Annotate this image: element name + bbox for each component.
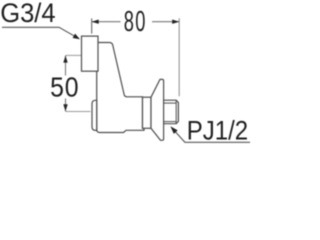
- dimension 50 extension line (top): [66, 54, 82, 56]
- svg-text:PJ1/2: PJ1/2: [187, 116, 248, 146]
- svg-text:50: 50: [50, 71, 79, 103]
- dimension 80 arrowhead left: [92, 20, 99, 24]
- leader arrowhead PJ1/2: [170, 126, 177, 134]
- dimension 50 line bottom segment: [65, 99, 67, 112]
- dimension 80 arrowhead right: [172, 20, 179, 24]
- pipe chamfer line vertical: [175, 100, 177, 124]
- leader line to PJ1/2 pipe: [175, 131, 250, 142]
- dimension 80 extension line (right): [178, 18, 180, 96]
- neck between body and flange: [143, 97, 152, 128]
- dimension 50 arrowhead down: [63, 104, 67, 111]
- dimension 50 line top segment: [65, 56, 67, 76]
- fitting body outline: [97, 43, 144, 133]
- pipe thread line bottom: [164, 121, 177, 123]
- svg-text:G3/4: G3/4: [0, 0, 55, 28]
- body left cap: [92, 100, 97, 130]
- flange cone with face: [151, 79, 164, 140]
- leader line to G3/4 thread: [2, 27, 76, 36]
- dimension 80 extension tick (left): [91, 18, 93, 33]
- dimension 50 extension line (bottom): [66, 111, 91, 113]
- G3/4 threaded boss: [82, 36, 99, 71]
- dimension 50 arrowhead up: [63, 56, 67, 63]
- leader arrowhead G3/4: [73, 34, 80, 40]
- dimension 80 line right segment: [152, 21, 179, 23]
- dimension 80 line left segment: [92, 21, 121, 23]
- PJ1/2 threaded pipe: [164, 100, 179, 124]
- pipe thread line top: [164, 102, 177, 104]
- svg-text:80: 80: [124, 6, 147, 38]
